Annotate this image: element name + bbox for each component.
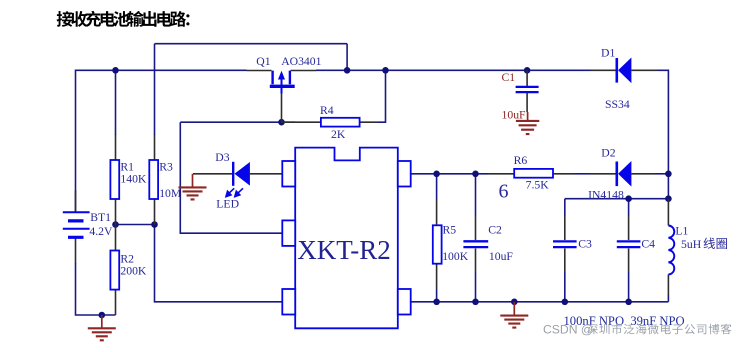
- label R4: [320, 104, 334, 117]
- led D3: [193, 162, 282, 197]
- label R5: [443, 224, 457, 237]
- resistor R1: [110, 135, 119, 225]
- label 10uF (C2): [489, 250, 514, 263]
- resistor R5: [433, 200, 442, 291]
- label BT1: [90, 211, 111, 224]
- capacitor C3: [553, 216, 577, 272]
- label 5uH + coil: [681, 238, 727, 251]
- wire gate drop to IC pin2: [180, 122, 282, 233]
- svg-text:L1: L1: [675, 225, 688, 238]
- node R1 top: [112, 67, 119, 74]
- label 2K: [331, 128, 346, 141]
- resistor R6: [489, 169, 575, 178]
- svg-text:IN4148: IN4148: [588, 188, 624, 201]
- svg-text:D2: D2: [601, 147, 615, 160]
- svg-text:7.5K: 7.5K: [526, 179, 550, 192]
- node C4 bottom: [625, 299, 632, 306]
- ground (LED): [179, 174, 207, 200]
- watermark CSDN: [543, 323, 731, 337]
- svg-text:140K: 140K: [120, 173, 147, 186]
- IC pin 3 (left bottom): [282, 289, 295, 315]
- wire C3 column: [564, 199, 566, 302]
- label D2: [601, 147, 615, 160]
- IC pin (right bottom): [398, 289, 411, 315]
- svg-text:100K: 100K: [442, 250, 469, 263]
- wire R6 to D2 gap: [575, 173, 591, 175]
- label D3: [215, 151, 229, 164]
- ground (bottom rail): [500, 302, 528, 328]
- label AO3401: [281, 55, 321, 68]
- label 10uF (C1): [502, 109, 527, 122]
- wire top loop: [155, 43, 348, 45]
- wire D1 cathode corner down: [658, 70, 669, 174]
- label 10M: [159, 187, 182, 200]
- wire top loop right drop: [346, 44, 348, 71]
- node C2 top: [472, 171, 479, 178]
- label 100K: [442, 250, 469, 263]
- svg-text:C4: C4: [641, 238, 655, 251]
- inductor L1: [668, 199, 674, 295]
- svg-text:AO3401: AO3401: [281, 55, 321, 68]
- wire R4 right up to rail: [378, 70, 386, 122]
- wire C2 column: [475, 174, 477, 302]
- label D1: [601, 46, 615, 59]
- wire D2 node to C3/C4 row: [667, 174, 669, 199]
- svg-text:5uH: 5uH: [681, 238, 702, 251]
- node ground tap: [511, 299, 518, 306]
- resistor R4: [282, 118, 379, 127]
- resistor R2: [110, 225, 119, 316]
- node R5 top: [433, 171, 440, 178]
- label R3: [159, 160, 173, 173]
- svg-text:CSDN @: CSDN @: [543, 323, 593, 337]
- label C3: [578, 238, 592, 251]
- wire rail B (Q1 drain to D1): [316, 69, 591, 71]
- svg-text:R5: R5: [443, 224, 457, 237]
- wire D2 right gap: [655, 173, 668, 175]
- node C2 bottom: [472, 299, 479, 306]
- wire battery bottom rail: [76, 263, 116, 315]
- ground (battery): [88, 315, 116, 340]
- capacitor C2: [463, 216, 488, 272]
- label C2: [488, 224, 502, 237]
- svg-text:2K: 2K: [331, 128, 346, 141]
- wire bottom rail: [411, 301, 668, 303]
- svg-text:6: 6: [499, 181, 509, 203]
- svg-text:R6: R6: [514, 154, 528, 167]
- wire battery+ rail: [76, 70, 247, 212]
- wire R5 column: [436, 174, 438, 302]
- wire IC pin6 row: [411, 173, 488, 175]
- IC pin 1 (left top): [282, 161, 295, 187]
- wire L1 column bottom: [667, 295, 669, 302]
- svg-text:SS34: SS34: [605, 98, 630, 111]
- title 接收充电池输出电路:: [57, 11, 190, 27]
- node Q1 gate: [278, 119, 285, 126]
- wire R1-R3 node row: [116, 224, 155, 226]
- svg-text:C2: C2: [488, 224, 502, 237]
- label 100nF NPO 39nF NPO: [564, 314, 685, 328]
- label XKT-R2: [297, 235, 391, 265]
- resistor R3: [149, 135, 158, 225]
- wire R3 column to IC pin3: [155, 225, 283, 302]
- node R5 bottom: [433, 299, 440, 306]
- label 7.5K: [526, 179, 550, 192]
- svg-text:D1: D1: [601, 46, 615, 59]
- svg-text:R2: R2: [120, 252, 134, 265]
- svg-text:R4: R4: [320, 104, 334, 117]
- node D2 cathode junction: [665, 171, 672, 178]
- svg-text:R1: R1: [120, 160, 134, 173]
- node battery ground: [99, 312, 106, 319]
- label 140K: [120, 173, 147, 186]
- node L1 top: [665, 195, 672, 202]
- svg-text:XKT-R2: XKT-R2: [297, 235, 391, 265]
- capacitor C4: [617, 216, 641, 272]
- label IN4148: [588, 188, 624, 201]
- node C1 tap: [524, 67, 531, 74]
- diode D2 IN4148: [591, 161, 656, 187]
- capacitor C1: [516, 70, 539, 112]
- wire gate node row: [180, 121, 295, 123]
- wire C3-C4 row: [565, 198, 669, 200]
- svg-text:10uF: 10uF: [489, 250, 514, 263]
- svg-text:D3: D3: [215, 151, 229, 164]
- label C1: [502, 71, 516, 84]
- node R3 bottom: [151, 221, 158, 228]
- svg-text:BT1: BT1: [90, 211, 111, 224]
- wire top loop left drop to R3: [154, 44, 156, 135]
- label pin number 6: [499, 181, 509, 203]
- svg-text:LED: LED: [216, 198, 239, 211]
- label R1: [120, 160, 134, 173]
- wire R1 top: [115, 70, 117, 135]
- label R6: [514, 154, 528, 167]
- label SS34: [605, 98, 630, 111]
- svg-text:Q1: Q1: [256, 55, 270, 68]
- ground (C1): [516, 112, 539, 134]
- label R2: [120, 252, 134, 265]
- label 4.2V: [89, 225, 113, 238]
- svg-text:C1: C1: [502, 71, 516, 84]
- battery BT1: [63, 190, 90, 264]
- IC pin 2 (left mid): [282, 220, 295, 246]
- transistor Q1 AO3401: [247, 71, 317, 123]
- svg-text:R3: R3: [159, 160, 173, 173]
- label LED: [216, 198, 239, 211]
- wire C4 column: [628, 199, 630, 302]
- svg-text:200K: 200K: [120, 265, 147, 278]
- label L1: [675, 225, 688, 238]
- node R4 right: [382, 67, 389, 74]
- svg-text:10uF: 10uF: [502, 109, 527, 122]
- label 200K: [120, 265, 147, 278]
- svg-text:4.2V: 4.2V: [89, 225, 113, 238]
- node top loop drop: [344, 67, 351, 74]
- node R1 bottom: [112, 221, 119, 228]
- svg-text:10M: 10M: [159, 187, 182, 200]
- svg-text:C3: C3: [578, 238, 592, 251]
- node C3 bottom: [562, 299, 569, 306]
- op-amp U1 XKT-R2 body: [295, 148, 398, 329]
- IC pin (right top): [398, 161, 411, 187]
- label Q1: [256, 55, 270, 68]
- label C4: [641, 238, 655, 251]
- node C4 top: [625, 195, 632, 202]
- diode D1 SS34: [591, 58, 658, 84]
